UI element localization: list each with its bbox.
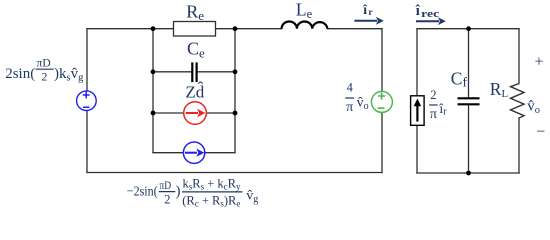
wire left down to source: [86, 29, 88, 91]
current source red (dependent): [184, 102, 207, 125]
node top-left rail: [151, 26, 156, 31]
wire red source row left: [153, 112, 184, 114]
wire capacitor row left: [153, 71, 191, 73]
svg-text:rec: rec: [421, 9, 439, 20]
wire left rail of parallel network: [152, 29, 154, 153]
wire right branch down to green source: [381, 29, 383, 92]
junction node dots: [151, 26, 471, 175]
capacitor Cf: [458, 98, 480, 104]
svg-text:): ): [176, 184, 181, 200]
wire rectifier bottom: [417, 172, 519, 174]
svg-text:2sin(: 2sin(: [5, 66, 35, 82]
formula bottom label: [127, 177, 258, 209]
wire blue source row right: [205, 152, 235, 154]
node red-left: [151, 111, 156, 116]
node cap-right: [233, 69, 238, 74]
current source 2/pi ir (box): [411, 96, 425, 126]
current irec arrow: [416, 17, 446, 25]
svg-text:−2sin(: −2sin(: [127, 185, 158, 200]
node cap-left: [151, 69, 156, 74]
svg-text:π: π: [430, 107, 437, 122]
wire green source to bottom: [381, 112, 383, 172]
node Cf top: [466, 26, 471, 31]
voltage source 4/pi vo (green): [371, 91, 392, 112]
svg-text:4: 4: [347, 81, 354, 95]
label 4/pi vo: [345, 81, 368, 115]
wire Cf branch upper: [468, 29, 470, 98]
wire capacitor row right: [198, 71, 235, 73]
wire bottom horizontal main loop: [87, 172, 382, 174]
node red-right: [233, 111, 238, 116]
wire resistor-right to inductor: [216, 28, 282, 30]
resistor Re: [174, 22, 216, 37]
wire right rail of parallel network: [234, 29, 236, 153]
capacitor Ce: [192, 62, 196, 82]
label 2/pi ir: [429, 88, 447, 122]
node top-right rail: [233, 26, 238, 31]
svg-text:π: π: [346, 100, 353, 115]
svg-text:2: 2: [41, 69, 47, 83]
svg-text:πD: πD: [37, 58, 51, 70]
resistor RL (zigzag): [511, 84, 525, 119]
svg-text:πD: πD: [159, 180, 171, 192]
current source blue (dependent): [183, 142, 204, 163]
svg-text:2: 2: [430, 88, 436, 102]
svg-text:−: −: [536, 123, 545, 140]
wire rectifier left rail above box: [416, 29, 418, 96]
svg-text:(Rc + Rs)Re: (Rc + Rs)Re: [182, 193, 240, 208]
wire RL branch lower: [518, 118, 520, 173]
wire rectifier top: [417, 28, 519, 30]
label 2sin(piD/2)ksvg: [5, 58, 84, 84]
svg-text:+: +: [534, 54, 543, 71]
wire source to bottom left corner: [86, 110, 88, 172]
voltage source Vg (left, blue): [77, 91, 97, 111]
inductor Le: [282, 21, 328, 28]
wire Cf branch lower: [468, 105, 470, 174]
node Cf bottom: [466, 171, 471, 176]
wire blue source row left: [153, 152, 184, 154]
svg-text:Zd̂: Zd̂: [185, 82, 204, 102]
wire top left horizontal: [87, 28, 174, 30]
wire red source row right: [206, 112, 235, 114]
current ir arrow: [354, 17, 383, 25]
wire inductor to top-right corner: [327, 28, 382, 30]
svg-text:2: 2: [164, 193, 170, 207]
wire RL branch upper: [518, 29, 520, 84]
wire rectifier left rail below box: [416, 125, 418, 173]
